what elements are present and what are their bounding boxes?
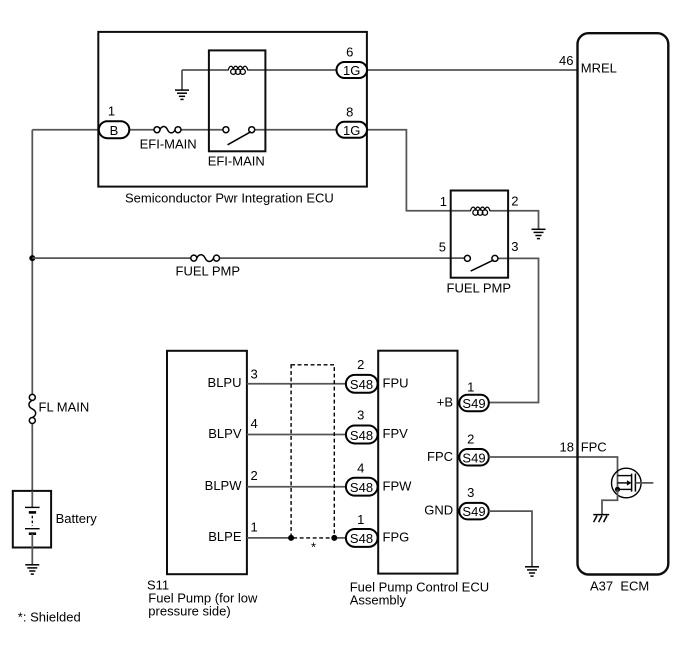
battery: [13, 491, 51, 548]
svg-text:BLPE: BLPE: [208, 529, 242, 544]
box: S11 Fuel Pump: [167, 351, 247, 574]
fuse FL MAIN (fusible link): [29, 394, 36, 423]
svg-text:S48: S48: [350, 531, 373, 546]
svg-text:MREL: MREL: [581, 61, 617, 76]
wire: 1G pin8 to FUEL PMP relay coil pin1: [367, 130, 471, 211]
connector oval S48 (FPV): [346, 426, 378, 444]
ground: battery: [25, 565, 39, 574]
battery plate long 1: [25, 506, 40, 508]
connector oval S48 (FPG): [346, 529, 378, 547]
svg-text:4: 4: [251, 416, 258, 431]
svg-text:A37 ECM: A37 ECM: [590, 578, 649, 593]
svg-text:BLPU: BLPU: [208, 375, 242, 390]
svg-text:S48: S48: [350, 428, 373, 443]
wire: coil ground stem: [181, 70, 183, 90]
svg-text:1G: 1G: [343, 63, 360, 78]
box: Fuel Pump Control ECU Assembly: [378, 351, 457, 574]
coil: EFI-MAIN relay: [228, 66, 247, 74]
connector oval S49 (GND): [459, 503, 489, 519]
svg-text:1: 1: [108, 104, 115, 119]
svg-text:2: 2: [511, 193, 518, 208]
switch blade: EFI-MAIN relay: [228, 132, 251, 145]
svg-text:FUEL PMP: FUEL PMP: [447, 280, 512, 295]
svg-text:S49: S49: [462, 450, 485, 465]
wire: EFI-MAIN fuse row: [129, 129, 336, 131]
svg-text:Battery: Battery: [56, 511, 98, 526]
battery internal: top lead: [31, 491, 33, 508]
svg-text:3: 3: [467, 485, 474, 500]
svg-text:1: 1: [440, 194, 447, 209]
svg-text:FPU: FPU: [383, 376, 409, 391]
connector oval S48 (FPU): [346, 375, 378, 393]
switch: FUEL PMP relay contacts: [464, 255, 498, 261]
wire: FUEL PMP relay coil pin2 to ground: [490, 211, 539, 230]
wire: MREL (1G pin6 to ECM pin46): [367, 69, 578, 71]
svg-text:pressure side): pressure side): [148, 604, 230, 619]
wire BLPU to S48: [247, 383, 346, 385]
ground: EFI-MAIN relay coil: [175, 90, 189, 99]
fuse FUEL PMP: [191, 255, 220, 262]
transistor Q1 (MOSFET in ECM): [612, 468, 654, 498]
svg-text:S49: S49: [462, 504, 485, 519]
svg-text:18: 18: [560, 439, 574, 454]
svg-text:FPW: FPW: [383, 478, 413, 493]
battery plate short 2: [29, 532, 36, 535]
connector oval S49 (+B): [459, 395, 489, 412]
svg-text:2: 2: [357, 357, 364, 372]
switch: EFI-MAIN relay contacts: [223, 127, 255, 133]
svg-text:3: 3: [511, 239, 518, 254]
connector oval S48 (FPW): [346, 478, 378, 496]
connector oval B: [99, 121, 130, 138]
svg-text:FUEL PMP: FUEL PMP: [176, 264, 241, 279]
svg-text:FPG: FPG: [383, 530, 410, 545]
svg-text:Assembly: Assembly: [350, 593, 407, 608]
relay box EFI-MAIN: [209, 50, 266, 151]
svg-text:FPV: FPV: [383, 426, 409, 441]
wire: FUEL PMP fuse row (pin5 feed): [32, 257, 464, 259]
svg-text:*: Shielded: *: Shielded: [18, 609, 81, 624]
wire: MOSFET source to chassis ground: [602, 489, 618, 514]
svg-text:GND: GND: [424, 503, 453, 518]
ground: fuel pump control ECU GND: [525, 567, 539, 576]
svg-text:3: 3: [251, 367, 258, 382]
svg-text:5: 5: [439, 240, 446, 255]
svg-text:BLPW: BLPW: [205, 478, 243, 493]
wire: B terminal feed: [32, 129, 99, 131]
wire: EFI-MAIN relay coil row: [182, 69, 337, 71]
junction dot: shield right: [331, 535, 337, 541]
junction dot: left rail to FUEL PMP fuse: [29, 255, 35, 261]
battery plate short 1: [29, 511, 36, 514]
battery dashed link: [31, 516, 33, 526]
svg-text:2: 2: [467, 431, 474, 446]
wire: FPC S49 to ECM pin18 and MOSFET gate: [489, 457, 618, 476]
box: Semiconductor Pwr Integration ECU: [98, 32, 367, 187]
coil: FUEL PMP relay: [471, 207, 490, 215]
svg-text:1: 1: [467, 380, 474, 395]
svg-text:1G: 1G: [343, 123, 360, 138]
svg-text:FPC: FPC: [581, 439, 607, 454]
svg-text:2: 2: [251, 468, 258, 483]
svg-text:Semiconductor Pwr Integration: Semiconductor Pwr Integration ECU: [125, 191, 334, 206]
svg-text:3: 3: [357, 407, 364, 422]
box: ECM A37: [578, 33, 669, 574]
wire: GND S49 to ground: [489, 511, 532, 567]
junction dot: shield left: [288, 535, 294, 541]
svg-text:46: 46: [559, 53, 573, 68]
svg-text:S49: S49: [462, 396, 485, 411]
wire: battery positive rail (left vertical): [31, 130, 33, 491]
svg-text:BLPV: BLPV: [208, 426, 242, 441]
svg-text:*: *: [311, 540, 316, 555]
svg-text:EFI-MAIN: EFI-MAIN: [140, 137, 197, 152]
svg-text:1: 1: [357, 512, 364, 527]
battery plate long 2: [25, 528, 40, 530]
fuse EFI-MAIN: [154, 126, 181, 132]
switch blade: FUEL PMP relay: [471, 260, 494, 271]
svg-text:EFI-MAIN: EFI-MAIN: [208, 154, 265, 169]
svg-text:+B: +B: [437, 395, 453, 410]
ground: FUEL PMP relay coil: [532, 229, 546, 238]
wire BLPE to S48 (shield tap): [247, 537, 346, 539]
wire: battery negative to ground: [31, 534, 33, 565]
svg-text:8: 8: [346, 105, 353, 120]
chassis ground (ECM internal): [593, 515, 609, 523]
connector oval 1G pin8: [337, 122, 368, 138]
wire BLPW to S48: [247, 486, 346, 488]
connector oval S49 (FPC): [459, 449, 489, 466]
relay box FUEL PMP: [451, 191, 508, 278]
svg-text:4: 4: [357, 460, 364, 475]
svg-text:B: B: [110, 123, 119, 138]
connector oval 1G pin6: [337, 62, 368, 78]
svg-text:FPC: FPC: [427, 449, 453, 464]
svg-text:S48: S48: [350, 480, 373, 495]
svg-text:1: 1: [251, 520, 258, 535]
shield dashed box: [291, 365, 334, 538]
svg-text:S48: S48: [350, 377, 373, 392]
wire: relay pin3 to +B S49: [489, 258, 539, 402]
wire BLPV to S48: [247, 434, 346, 436]
svg-text:FL MAIN: FL MAIN: [39, 400, 90, 415]
svg-text:6: 6: [346, 45, 353, 60]
